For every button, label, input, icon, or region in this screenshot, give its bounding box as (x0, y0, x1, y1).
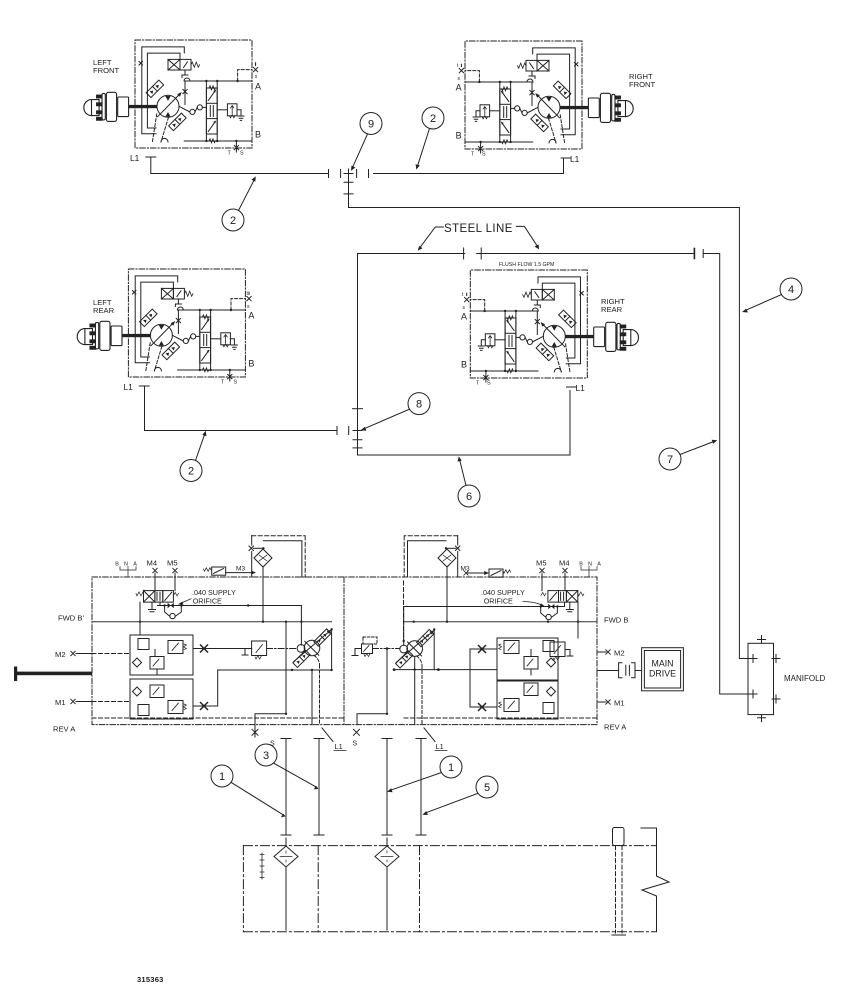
.040 supply orifice label right (481, 588, 544, 607)
left front wheel motor assembly (84, 40, 258, 157)
svg-text:ORIFICE: ORIFICE (193, 597, 222, 606)
svg-text:B: B (255, 130, 261, 140)
svg-text:M4: M4 (559, 559, 570, 568)
pipe 4 (right case drain L1) (416, 739, 426, 836)
balloon 6 (458, 485, 480, 507)
.040 supply orifice label left (178, 588, 236, 606)
svg-text:2: 2 (230, 215, 236, 227)
tick (344, 193, 353, 195)
left front labels (93, 58, 261, 163)
pump control valve left (144, 591, 155, 603)
wire fitting 8 to rear return line (358, 444, 571, 455)
svg-text:t: t (462, 292, 464, 298)
X fittings right (479, 646, 486, 653)
svg-text:T: T (228, 151, 232, 157)
charge filter diamond left (254, 549, 272, 567)
svg-text:M3: M3 (461, 566, 470, 573)
svg-text:FLUSH FLOW 1.5 GPM: FLUSH FLOW 1.5 GPM (499, 262, 554, 268)
wire steel line right end to manifold drop (703, 254, 748, 695)
right front wheel motor assembly (mirrored) (459, 41, 633, 158)
right rear labels (461, 292, 625, 393)
svg-text:FWD B′: FWD B′ (58, 614, 84, 623)
wire front L1 bus right segment (374, 173, 564, 175)
port labels right pump (461, 559, 629, 732)
svg-text:L1: L1 (436, 742, 444, 751)
svg-text:3: 3 (263, 750, 269, 762)
filler pipe dashed (615, 846, 617, 933)
svg-text:DRIVE: DRIVE (649, 669, 676, 679)
svg-text:MAIN: MAIN (652, 659, 674, 669)
callout circles (180, 107, 802, 817)
svg-text:B: B (115, 562, 119, 568)
svg-text:A: A (248, 311, 254, 321)
input drive shaft (15, 672, 92, 676)
main drive box (642, 648, 684, 691)
left pump top ports (120, 536, 305, 635)
svg-text:FRONT: FRONT (93, 66, 120, 75)
svg-text:M5: M5 (167, 559, 178, 568)
wires from valve into manifold block (140, 602, 160, 635)
supply orifice right (404, 606, 565, 608)
pump control valve right (548, 591, 559, 603)
wire steel line left vertical to rear fitting (357, 254, 359, 427)
balloon 9 (360, 113, 382, 135)
svg-text:1: 1 (219, 771, 225, 783)
balloon 3 (255, 744, 277, 766)
svg-text:4: 4 (788, 284, 794, 296)
M3 solenoid valve right (489, 569, 503, 577)
balloon 1 right (440, 756, 462, 778)
svg-text:315363: 315363 (137, 975, 164, 984)
svg-text:M2: M2 (55, 650, 66, 659)
leader steel line left (420, 227, 444, 248)
pipe 2 (left case drain L1) (314, 739, 324, 836)
wires: front L1 manifold line (145, 158, 749, 695)
balloon 4 (780, 278, 802, 300)
svg-text:s: s (247, 304, 250, 310)
left rear wheel motor assembly (77, 269, 251, 386)
balloon 7 (659, 448, 681, 470)
balloon 8 (408, 393, 430, 415)
svg-text:M1: M1 (55, 698, 66, 707)
svg-text:M3: M3 (236, 566, 245, 573)
left rear labels (93, 291, 254, 392)
M5 M4 ports (540, 568, 544, 572)
svg-text:5: 5 (484, 782, 490, 794)
wire steel line mid segment (481, 253, 694, 255)
main pump rotary group left (304, 640, 320, 656)
FWD B bus right (404, 621, 597, 623)
M3 solenoid valve left (212, 567, 226, 575)
tick (368, 170, 370, 178)
svg-text:A: A (255, 82, 261, 92)
tick (353, 408, 363, 410)
control block upper right (497, 638, 558, 680)
pump section divider (343, 577, 345, 725)
port labels left pump (53, 559, 245, 734)
svg-text:A: A (597, 562, 601, 568)
wire RF L1 drop (563, 159, 565, 174)
pipe 3 (right suction) (382, 739, 392, 836)
reservoir tank (243, 828, 669, 936)
svg-text:N: N (124, 562, 128, 568)
control block upper left (130, 635, 193, 675)
junction cross fitting 9a (344, 169, 353, 178)
svg-text:REV A: REV A (53, 725, 76, 734)
svg-text:A: A (461, 312, 467, 322)
svg-text:t: t (255, 62, 257, 68)
wire front L1 bus left segment (151, 173, 329, 175)
svg-text:7: 7 (667, 454, 673, 466)
junction cross fitting 8b (353, 435, 362, 444)
suction strainer left (274, 846, 298, 867)
svg-text:S: S (240, 151, 244, 157)
drive coupling (597, 670, 618, 672)
REV A bus (92, 717, 344, 719)
M2 port right (606, 650, 610, 654)
svg-text:T: T (471, 152, 475, 158)
M1 port (71, 699, 75, 703)
svg-text:8: 8 (416, 399, 422, 411)
manifold block (748, 636, 780, 722)
tick (702, 250, 704, 258)
svg-text:L1: L1 (576, 383, 586, 393)
svg-text:M5: M5 (536, 559, 547, 568)
svg-text:S: S (270, 741, 275, 748)
tandem pump enclosure (92, 577, 597, 725)
charge relief valve right (550, 642, 565, 657)
right front labels (456, 63, 656, 164)
svg-text:s: s (458, 76, 461, 82)
svg-text:M2: M2 (614, 649, 625, 658)
right pump body (393, 607, 684, 725)
svg-text:2: 2 (430, 113, 436, 125)
svg-text:A: A (456, 83, 462, 93)
pipe 1 (left suction) (281, 739, 291, 836)
main pump rotary group right (407, 641, 423, 657)
balloon numbers (188, 113, 794, 794)
svg-text:2: 2 (188, 466, 194, 478)
svg-text:FRONT: FRONT (629, 80, 656, 89)
svg-text:N: N (588, 562, 592, 568)
X fittings (201, 645, 208, 652)
svg-text:T: T (221, 380, 225, 386)
svg-text:A: A (133, 562, 137, 568)
svg-text:S: S (487, 381, 491, 387)
charge filter diamond right (438, 549, 456, 567)
balloon 1 left (211, 765, 233, 787)
svg-text:L1: L1 (570, 154, 580, 164)
svg-text:L1: L1 (335, 742, 343, 751)
svg-text:6: 6 (466, 491, 472, 503)
L1 leader right (424, 728, 435, 742)
REV A bus right (404, 717, 597, 719)
svg-text:FWD B: FWD B (604, 616, 628, 625)
svg-text:REAR: REAR (93, 306, 115, 315)
leader steel line right (516, 226, 538, 247)
tick (477, 248, 486, 259)
svg-text:B: B (579, 562, 583, 568)
balloon 2 left rear (180, 460, 202, 482)
junction cross fitting 9b (344, 178, 353, 187)
suction line left (255, 622, 286, 737)
right pump top ports (404, 536, 597, 638)
balloon 5 (476, 776, 498, 798)
svg-text:B: B (456, 131, 462, 141)
wire LR L1 drop (145, 387, 338, 431)
M2 port (71, 651, 75, 655)
svg-text:M1: M1 (614, 699, 625, 708)
svg-text:MANIFOLD: MANIFOLD (784, 674, 826, 683)
tick (340, 170, 342, 178)
svg-text:REV A: REV A (604, 723, 627, 732)
FWD B bus (92, 621, 332, 623)
wire steel line left segment (358, 253, 465, 255)
suction strainer right (375, 846, 399, 867)
right rear wheel motor assembly (mirrored) (465, 270, 639, 387)
main drive label (649, 659, 676, 679)
svg-text:REAR: REAR (601, 305, 623, 314)
svg-text:t: t (247, 291, 249, 297)
svg-text:s: s (255, 74, 258, 80)
M1 port right (606, 700, 610, 704)
wire LF L1 drop (150, 158, 152, 174)
suction / drain pipes to tank (281, 728, 447, 835)
svg-text:L1: L1 (130, 153, 140, 163)
charge relief valve left (252, 641, 267, 656)
charge pump circle (297, 645, 305, 653)
tick (693, 249, 695, 259)
control block lower left (130, 679, 193, 719)
wire RR L1 drop (569, 391, 571, 456)
L1 leader left (322, 728, 333, 742)
svg-text:s: s (463, 305, 466, 311)
junction cross fitting 8a (353, 426, 362, 435)
wire steel supply line (front) to manifold (349, 208, 749, 659)
tick (348, 427, 350, 435)
svg-text:ORIFICE: ORIFICE (484, 597, 513, 606)
svg-text:L1: L1 (124, 382, 134, 392)
svg-text:B: B (248, 359, 254, 369)
tank break edge (641, 828, 669, 932)
wire fitting 9 down to steel supply line (348, 187, 350, 208)
tick (328, 170, 330, 178)
charge pump circle right (400, 645, 408, 653)
svg-text:S: S (482, 152, 486, 158)
tick (336, 427, 338, 435)
svg-text:S: S (353, 741, 358, 748)
balloon 2 front (422, 107, 444, 129)
svg-text:t: t (457, 63, 459, 69)
right pump inner dashed edge (403, 581, 405, 641)
supply orifice left (158, 605, 302, 607)
tick (356, 170, 358, 178)
tick (353, 447, 362, 449)
svg-text:B: B (461, 360, 467, 370)
control block lower right (497, 681, 558, 719)
svg-text:STEEL LINE: STEEL LINE (444, 223, 513, 235)
svg-text:9: 9 (368, 119, 374, 131)
svg-text:S: S (234, 380, 238, 386)
svg-text:M4: M4 (147, 559, 158, 568)
svg-text:T: T (476, 381, 480, 387)
left pump body (14, 606, 344, 738)
tick (463, 248, 465, 259)
svg-text:1: 1 (448, 762, 454, 774)
sight gauge (260, 853, 264, 879)
balloon 2 left front (222, 209, 244, 231)
inter-pump bleed valve (352, 637, 400, 735)
